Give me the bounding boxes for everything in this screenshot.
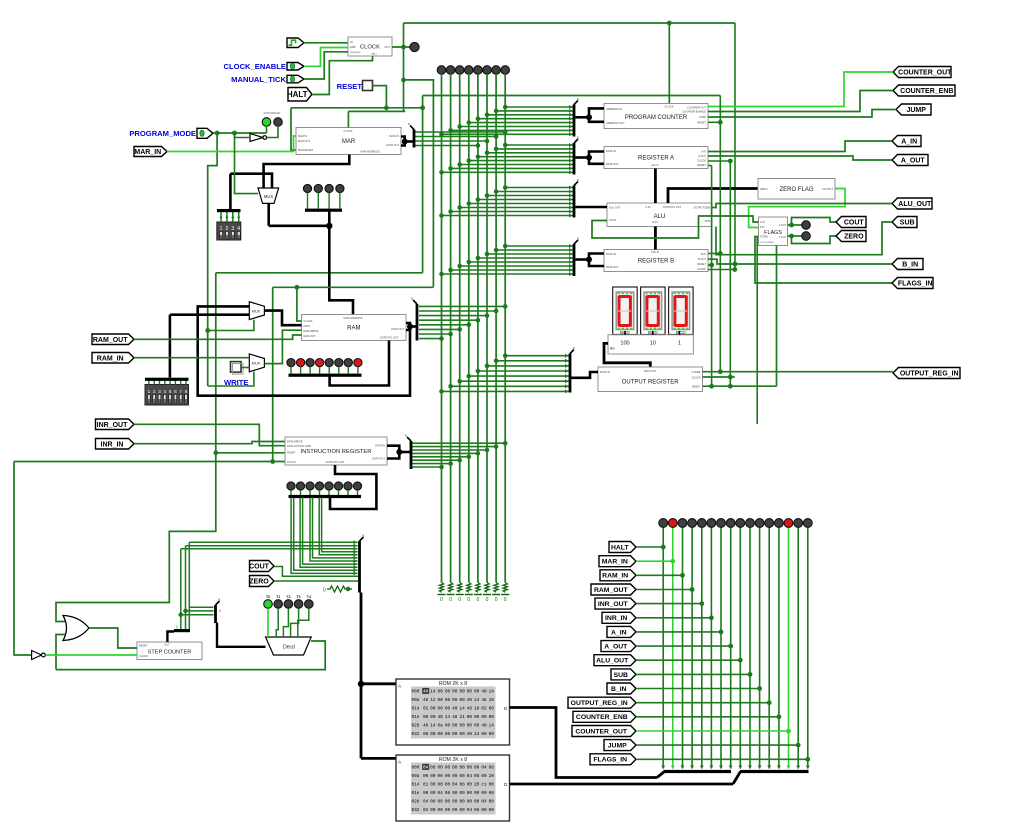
LED control COUNTER_OUT — [784, 519, 793, 528]
node rail B regA clock — [728, 159, 733, 164]
wire instruction LED stem 6 — [347, 490, 349, 495]
node register A bus bit 2 tap — [485, 151, 490, 156]
wire clock top horizontal rail — [404, 22, 736, 24]
wire bcd 100 link — [624, 331, 626, 335]
ground bus 1 — [447, 594, 455, 596]
wire ram out LED stem 7 — [357, 367, 359, 374]
node instruction register bus bit 7 tap — [439, 465, 444, 470]
svg-text:A_IN: A_IN — [611, 629, 627, 636]
pin label FLAGS_IN control — [590, 754, 636, 765]
wire control column COUNTER_OUT — [788, 527, 790, 769]
wire clock long horizontal to IR — [14, 461, 285, 463]
wire RAM bus bit 6 — [419, 333, 451, 335]
node output register bus bit 0 tap — [503, 353, 508, 358]
svg-text:3: 3 — [158, 389, 161, 394]
wire RAM bus bit 2 — [419, 315, 487, 317]
svg-text:DATA OUT: DATA OUT — [606, 162, 619, 166]
node step bit 0 tap — [179, 612, 184, 617]
svg-text:4: 4 — [164, 389, 167, 394]
wire COUNTER_ENB — [708, 91, 893, 112]
LED ram address bit 2 — [325, 184, 333, 192]
wire MAR address bit 0 — [414, 131, 505, 133]
pin label A_IN — [892, 136, 921, 147]
pin label JUMP — [896, 104, 931, 115]
wire zero flag to flags Z IN — [749, 189, 845, 228]
node ALU bus bit 7 tap — [439, 213, 444, 218]
bus splitter register A — [573, 136, 579, 175]
node ALU bus bit 0 tap — [503, 185, 508, 190]
node instruction register bus bit 3 tap — [476, 451, 481, 456]
svg-text:00a: 00a — [412, 774, 420, 779]
svg-text:00: 00 — [459, 791, 465, 796]
splitter decoder input — [214, 598, 220, 624]
clock source input pin — [287, 38, 304, 48]
node register B bus bit 0 tap — [503, 244, 508, 249]
node RAM bus bit 0 tap — [503, 304, 508, 309]
not gate step clock — [32, 651, 46, 660]
svg-text:00: 00 — [445, 774, 451, 779]
svg-text:DATA OUT: DATA OUT — [386, 143, 399, 147]
node output register bus bit 5 tap — [457, 379, 462, 384]
wire step bus to decoder — [217, 623, 266, 647]
wire IR data stub — [399, 451, 411, 454]
svg-text:COUNTER OUT: COUNTER OUT — [687, 106, 706, 110]
wire HALT to clock HALT — [312, 56, 373, 95]
wire DIP8 riser — [169, 315, 172, 378]
wire RAM_IN to mux — [134, 357, 249, 359]
svg-text:COUNTER_OUT: COUNTER_OUT — [575, 728, 628, 735]
wire ALU bus bit 2 — [487, 195, 574, 197]
svg-text:04: 04 — [423, 766, 429, 771]
node instruction register bus bit 1 tap — [494, 444, 499, 449]
node B_IN rail junction — [733, 262, 738, 267]
svg-text:00: 00 — [481, 808, 487, 813]
svg-text:00: 00 — [467, 724, 473, 729]
svg-text:00: 00 — [430, 774, 436, 779]
wire clock rail to IR — [272, 287, 274, 461]
node program counter bus bit 6 tap — [448, 128, 453, 133]
wire RAM data feedback to mux input 1 — [198, 306, 410, 395]
write button — [231, 362, 242, 373]
wire output register bus bit 0 — [505, 355, 570, 357]
BCD converter box — [608, 335, 693, 354]
resistor bus pulldown 6 — [494, 583, 498, 593]
wire control column JUMP — [797, 527, 799, 769]
resistor bus pulldown 1 — [448, 583, 452, 593]
node control SUB — [748, 672, 753, 677]
wire output register bus bit 1 — [496, 360, 570, 362]
svg-text:04: 04 — [452, 783, 458, 788]
ALU U4 — [607, 203, 712, 227]
LED control RAM_IN — [678, 519, 687, 528]
svg-text:00: 00 — [489, 732, 495, 737]
node RAM bus bit 3 tap — [476, 318, 481, 323]
LED ram address bit 1 — [314, 184, 322, 192]
wire address to ROM 1 — [361, 682, 396, 685]
svg-text:INR_IN: INR_IN — [101, 441, 124, 448]
node Z OUT junction — [789, 234, 794, 239]
LED instruction bit 5 — [334, 482, 342, 490]
node resistor junction — [346, 587, 351, 592]
wire instruction LED stem 7 — [357, 490, 359, 495]
wire control row RAM_OUT — [636, 589, 692, 591]
node reset junction — [384, 105, 389, 110]
svg-text:COUNTER ENABLE: COUNTER ENABLE — [682, 110, 706, 114]
node rail A output register store — [718, 369, 723, 374]
wire output register bus bit 2 — [487, 365, 570, 367]
node step bit 1 tap — [183, 609, 188, 614]
pin label A_OUT — [892, 155, 928, 166]
wire ram out LED stem 1 — [300, 367, 302, 374]
svg-text:MAR IN: MAR IN — [298, 134, 307, 138]
svg-text:DATA IN: DATA IN — [606, 149, 616, 153]
svg-text:00: 00 — [438, 732, 444, 737]
wire ram address LED stem 0 — [307, 193, 309, 209]
wire program counter bus bit 1 — [496, 110, 574, 112]
svg-text:81: 81 — [423, 783, 429, 788]
pin label INR_OUT control — [595, 598, 636, 609]
wire register A data out — [589, 158, 604, 164]
svg-text:HALT: HALT — [287, 90, 308, 99]
wire instruction LED stem 4 — [328, 490, 330, 495]
svg-text:0: 0 — [440, 597, 443, 603]
LED control ALU_OUT — [736, 519, 745, 528]
svg-text:14: 14 — [445, 715, 451, 720]
LED clock out — [410, 42, 419, 51]
splitter step bits — [174, 629, 190, 632]
pin label B_IN control — [607, 683, 636, 694]
wire instruction bit 3 to rom splitter — [303, 498, 358, 565]
wire register A bus bit 4 — [469, 160, 574, 162]
splitter instruction LEDs — [289, 495, 362, 498]
wire instruction register bus bit 1 — [411, 446, 496, 448]
wire register B bus stub — [576, 258, 590, 261]
LED control RAM_OUT — [688, 519, 697, 528]
not gate program mode — [250, 134, 267, 142]
node program counter bus bit 5 tap — [457, 124, 462, 129]
svg-text:04: 04 — [481, 766, 487, 771]
svg-text:JUMP: JUMP — [608, 743, 627, 750]
node control INR_OUT — [699, 601, 704, 606]
LED bus bit 6 — [492, 66, 501, 75]
node clock rail to program counter — [667, 21, 672, 26]
svg-text:40: 40 — [481, 724, 487, 729]
pin label RAM_OUT control — [591, 584, 636, 595]
node outreg clock junction — [728, 375, 733, 380]
svg-text:IN: IN — [350, 40, 353, 44]
wire program counter bus bit 0 — [505, 106, 574, 108]
svg-text:00: 00 — [467, 766, 473, 771]
node instruction register bus bit 0 tap — [503, 441, 508, 446]
svg-text:B_IN: B_IN — [902, 262, 918, 269]
wire program counter bus bit 5 — [460, 126, 574, 128]
svg-text:00: 00 — [452, 766, 458, 771]
svg-text:5: 5 — [169, 389, 172, 394]
node output register bus bit 6 tap — [448, 384, 453, 389]
wire control row A_OUT — [636, 645, 731, 647]
svg-text:00: 00 — [445, 766, 451, 771]
wire ALU bus bit 1 — [496, 191, 574, 193]
wire ROM2 splitter diagonal — [733, 772, 741, 785]
wire control row MAR_IN — [636, 560, 673, 562]
LED ram address bit 3 — [336, 184, 344, 192]
wire ALU B IN to register B — [654, 227, 657, 250]
svg-text:00: 00 — [489, 808, 495, 813]
wire ALU bus bit 4 — [469, 203, 574, 205]
svg-text:7: 7 — [179, 389, 182, 394]
svg-text:02: 02 — [423, 707, 429, 712]
wire program counter bus bit 6 — [451, 129, 574, 131]
node register A bus bit 4 tap — [467, 158, 472, 163]
wire MAR data elbow — [401, 137, 405, 146]
svg-text:00: 00 — [474, 800, 480, 805]
LED control OUTPUT_REG_IN — [765, 519, 774, 528]
wire output register data in — [571, 372, 598, 378]
svg-text:00: 00 — [452, 800, 458, 805]
svg-text:A IN: A IN — [646, 205, 651, 209]
node rom address branch — [358, 681, 364, 687]
svg-text:2: 2 — [153, 389, 156, 394]
LED instruction bit 2 — [306, 482, 314, 490]
LED bus bit 1 — [446, 66, 455, 75]
wire control row COUNTER_ENB — [636, 716, 779, 718]
svg-text:04: 04 — [423, 800, 429, 805]
wire step bit 0 to rom splitter — [181, 548, 358, 550]
wire ROM1 splitter diagonal — [657, 772, 665, 778]
ground bus 7 — [501, 594, 509, 596]
svg-text:Z IN: Z IN — [760, 227, 765, 229]
LED manual mode — [274, 118, 283, 127]
instruction register U11 — [285, 437, 387, 465]
wire flags reset rail — [776, 246, 778, 387]
node program mode mux1 select — [205, 328, 210, 333]
node program counter bus bit 4 tap — [467, 120, 472, 125]
svg-text:T0: T0 — [266, 595, 270, 599]
wire control column MAR_IN — [672, 527, 674, 769]
LED ram out bit 0 — [287, 359, 295, 367]
wire register A data in — [589, 152, 604, 158]
svg-text:DATA IN: DATA IN — [389, 134, 399, 138]
svg-text:MAR OUT: MAR OUT — [298, 139, 310, 143]
svg-text:08: 08 — [459, 783, 465, 788]
wire clock out riser — [403, 23, 405, 111]
svg-text:A_OUT: A_OUT — [901, 158, 925, 165]
node register A bus bit 6 tap — [448, 166, 453, 171]
dip switch 4 — [217, 212, 241, 240]
svg-text:00: 00 — [467, 715, 473, 720]
svg-text:04: 04 — [438, 791, 444, 796]
wire A_OUT — [708, 156, 892, 160]
svg-text:032: 032 — [412, 732, 420, 737]
wire RAM outputs to LED splitter — [330, 341, 389, 386]
svg-text:DATA IN: DATA IN — [375, 444, 385, 448]
wire program counter bus bit 4 — [469, 122, 574, 124]
svg-text:BCD: BCD — [676, 330, 686, 335]
svg-text:CLOCK: CLOCK — [665, 105, 674, 109]
pin label COUNTER_ENB control — [573, 711, 636, 722]
svg-text:20: 20 — [474, 783, 480, 788]
wire step bit 2 to rom splitter — [189, 541, 357, 543]
wire control row COUNTER_OUT — [636, 730, 789, 732]
svg-text:HALT: HALT — [371, 53, 377, 56]
svg-text:WRITE: WRITE — [224, 378, 248, 387]
svg-text:RAM_OUT: RAM_OUT — [594, 587, 628, 594]
svg-text:ZERO: ZERO — [844, 234, 864, 241]
wire program counter bus bit 2 — [487, 114, 574, 116]
LED ram address bit 0 — [303, 184, 311, 192]
node RAM bus bit 7 tap — [439, 336, 444, 341]
wire program counter data out — [589, 117, 604, 122]
svg-text:Bin: Bin — [610, 347, 615, 351]
wire register A bus stub — [576, 156, 590, 159]
wire ALU bus bit 5 — [460, 207, 574, 209]
wire ram out LED stem 4 — [328, 367, 330, 374]
wire register B data in — [589, 254, 604, 260]
svg-text:MUX: MUX — [252, 362, 261, 366]
wire control column A_IN — [720, 527, 722, 769]
wire instruction bit 5 to rom splitter — [313, 498, 358, 558]
svg-text:ZERO FLAG: ZERO FLAG — [779, 187, 813, 193]
svg-text:032: 032 — [412, 808, 420, 813]
node output register bus bit 3 tap — [476, 369, 481, 374]
svg-text:40: 40 — [481, 690, 487, 695]
svg-text:MAR RESET: MAR RESET — [298, 148, 314, 152]
wire RAM bus bit 5 — [419, 328, 460, 330]
node IR data junction — [396, 449, 402, 455]
wire IR data elbow — [387, 446, 399, 459]
LED T4 — [305, 600, 314, 609]
wire bus line 2 — [459, 74, 461, 583]
svg-text:AUTO MANUAL: AUTO MANUAL — [263, 112, 281, 115]
wire instruction bit 1 to rom splitter — [294, 498, 358, 571]
svg-text:RAM OUT: RAM OUT — [304, 334, 316, 338]
svg-text:00a: 00a — [412, 698, 420, 703]
svg-text:08: 08 — [430, 766, 436, 771]
wire reset to IR — [216, 452, 285, 454]
svg-text:014: 014 — [412, 707, 420, 712]
wire flags C OUT — [788, 224, 802, 226]
svg-text:A_IN: A_IN — [901, 139, 917, 146]
wire bcd 1 link — [678, 331, 680, 335]
svg-text:00: 00 — [489, 707, 495, 712]
wire register B bus bit 0 — [505, 245, 574, 247]
svg-text:00: 00 — [423, 715, 429, 720]
node register B bus bit 4 tap — [467, 260, 472, 265]
svg-text:COUNTER_OUT: COUNTER_OUT — [898, 70, 952, 77]
svg-text:00: 00 — [430, 732, 436, 737]
svg-text:00: 00 — [481, 774, 487, 779]
LED T1 — [274, 600, 283, 609]
node RAM bus bit 2 tap — [485, 313, 490, 318]
wire flags Z OUT — [788, 235, 802, 237]
svg-text:0: 0 — [467, 597, 470, 603]
wire control row RAM_IN — [636, 574, 683, 576]
node output register bus bit 7 tap — [439, 389, 444, 394]
svg-text:T1: T1 — [276, 595, 280, 599]
svg-text:COUNTER_ENB: COUNTER_ENB — [900, 88, 953, 95]
node register A bus bit 0 tap — [503, 143, 508, 148]
node control B_IN — [757, 686, 762, 691]
svg-text:OUTPUT_REG_IN: OUTPUT_REG_IN — [900, 371, 959, 378]
wire MAR mux out — [267, 203, 270, 225]
svg-text:DATA WRITE: DATA WRITE — [287, 440, 303, 444]
wire CLOCK OUT — [392, 46, 411, 48]
wire inverted mode to manual LED — [267, 126, 278, 138]
wire MAR clock drop — [347, 111, 349, 127]
wire output register bus bit 5 — [460, 380, 570, 382]
svg-text:00: 00 — [445, 690, 451, 695]
wire register A bus bit 3 — [478, 156, 574, 158]
node clock out — [401, 45, 406, 50]
node program counter bus bit 3 tap — [476, 116, 481, 121]
pin label COUT matrix — [249, 561, 274, 572]
pin label A_IN control — [607, 626, 636, 637]
wire step bit 1 to rom splitter — [186, 545, 358, 547]
pin label MAR_IN — [134, 147, 167, 157]
LED control JUMP — [794, 519, 803, 528]
svg-text:00: 00 — [445, 808, 451, 813]
node reset rail junction — [420, 105, 425, 110]
wire reset rail down — [422, 108, 424, 273]
node ALU bus bit 3 tap — [476, 197, 481, 202]
resistor bus pulldown 2 — [458, 583, 462, 593]
node RAM bus bit 5 tap — [457, 327, 462, 332]
node program counter bus junction — [586, 114, 592, 120]
svg-text:00: 00 — [459, 724, 465, 729]
node program counter bus bit 0 tap — [503, 105, 508, 110]
LED bus bit 3 — [465, 66, 474, 75]
wire instruction LED stem 5 — [338, 490, 340, 495]
wire B_IN — [708, 259, 892, 264]
LED ram out bit 2 — [306, 359, 314, 367]
ground bus 4 — [474, 594, 482, 596]
splitter ram out LEDs — [289, 374, 362, 377]
svg-text:JUMP: JUMP — [699, 115, 706, 119]
svg-text:FLAGS_IN: FLAGS_IN — [593, 757, 627, 764]
input pin CLOCK_ENABLE — [287, 63, 304, 71]
svg-text:40: 40 — [438, 715, 444, 720]
resistor bus pulldown 3 — [467, 583, 471, 593]
wire output register to BCD Bin — [604, 343, 650, 367]
wire register B bus bit 3 — [478, 257, 574, 259]
svg-text:00: 00 — [445, 707, 451, 712]
svg-text:C OUT: C OUT — [779, 225, 787, 227]
wire register B bus bit 2 — [487, 253, 574, 255]
wire bus line 3 — [468, 74, 470, 583]
wire control column B_IN — [759, 527, 761, 769]
svg-text:MUX: MUX — [264, 194, 274, 199]
svg-text:00: 00 — [459, 690, 465, 695]
svg-text:ADDRESS IN: ADDRESS IN — [606, 107, 622, 111]
wire PC RESET stub — [708, 121, 720, 123]
wire T3 to decoder — [291, 608, 299, 637]
svg-text:0: 0 — [486, 597, 489, 603]
wire step bit 0 to decoder splitter — [181, 614, 214, 616]
wire ALU outputs to zero flag — [668, 189, 759, 204]
wire register B data out — [589, 260, 604, 267]
svg-text:48: 48 — [467, 707, 473, 712]
svg-text:10: 10 — [650, 341, 656, 347]
wire program mode to RAM mux select — [208, 320, 254, 331]
svg-text:DATA OUT: DATA OUT — [391, 327, 404, 331]
svg-text:CLOCK RESET: CLOCK RESET — [760, 242, 775, 244]
wire RAM bus bit 7 — [419, 338, 442, 340]
svg-text:INR_OUT: INR_OUT — [97, 422, 128, 429]
node RAM bus bit 4 tap — [467, 323, 472, 328]
bus splitter ALU — [573, 178, 579, 218]
wire reset to MAR RESET — [291, 108, 296, 150]
wire RAM clock drop — [297, 287, 302, 321]
